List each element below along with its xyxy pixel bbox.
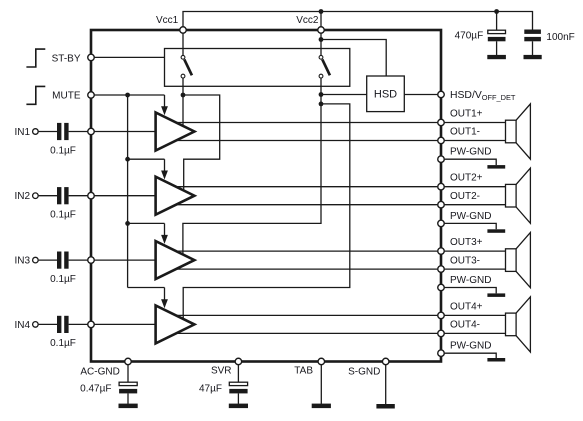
wire OUT3+ to speaker xyxy=(445,250,506,252)
pin OUT4+ xyxy=(438,312,445,319)
pin Vcc1 xyxy=(180,27,187,34)
label Vcc2 xyxy=(296,15,319,26)
svg-text:PW-GND: PW-GND xyxy=(450,275,491,286)
IC block boundary xyxy=(91,30,441,362)
wire mute bus xyxy=(127,95,129,288)
svg-text:IN1: IN1 xyxy=(14,127,30,138)
pin OUT4- xyxy=(438,330,445,337)
wire 47uF to ground xyxy=(237,393,239,404)
wire OUT3- to speaker xyxy=(445,268,506,270)
label IN2 xyxy=(14,191,30,202)
wire cap C1 to pin IN1 xyxy=(69,131,88,133)
label IN4 xyxy=(14,320,30,331)
svg-text:0.47µF: 0.47µF xyxy=(80,384,111,395)
svg-text:IN4: IN4 xyxy=(14,320,30,331)
svg-text:OUT1-: OUT1- xyxy=(450,127,480,138)
wire 100nF to ground xyxy=(532,41,534,55)
node S1 bias junction xyxy=(181,93,186,98)
switch S1 top contact xyxy=(181,55,185,59)
wire OUT1- net xyxy=(175,140,437,142)
pin OUT2+ xyxy=(438,183,445,190)
wire IN3 to amp xyxy=(95,259,156,261)
wire mute feed amp2 xyxy=(128,158,165,160)
label OUT2- xyxy=(450,191,480,202)
wire OUT2+ net xyxy=(175,186,437,188)
wire OUT4- net xyxy=(175,332,437,334)
svg-text:HSD: HSD xyxy=(374,89,397,101)
svg-text:PW-GND: PW-GND xyxy=(450,341,491,352)
pin IN4 xyxy=(88,321,95,328)
wire 470uF feed xyxy=(496,12,498,31)
wire OUT4+ to speaker xyxy=(445,314,506,316)
value 100nF xyxy=(546,32,574,43)
ground PW-GND3 xyxy=(487,293,505,297)
svg-text:MUTE: MUTE xyxy=(52,91,81,102)
ground AC-GND xyxy=(119,404,138,409)
pin PW-GND2 xyxy=(438,220,445,227)
speaker LS2 xyxy=(506,168,531,223)
pin OUT1+ xyxy=(438,119,445,126)
capacitor C1 0.1uF xyxy=(57,123,69,140)
svg-text:OUT3-: OUT3- xyxy=(450,255,480,266)
node 470uF top-rail junction xyxy=(494,9,499,14)
pin IN3 xyxy=(88,257,95,264)
node Vcc2 top-rail junction xyxy=(319,9,324,14)
pin S-GND xyxy=(382,358,389,365)
node S2 bias junction xyxy=(319,102,324,107)
wire cap C2 to pin IN2 xyxy=(69,195,88,197)
label PW-GND1 xyxy=(450,147,491,158)
wire OUT2- net xyxy=(175,204,437,206)
wire MUTE to mute bus xyxy=(95,94,165,96)
wire OUT1+ to speaker xyxy=(445,122,506,124)
label PW-GND3 xyxy=(450,275,491,286)
speaker LS3 xyxy=(506,233,531,288)
value C4 0.1uF xyxy=(50,338,76,349)
pin OUT1- xyxy=(438,137,445,144)
label PW-GND4 xyxy=(450,341,491,352)
ground 470uF xyxy=(487,55,506,59)
svg-text:0.1µF: 0.1µF xyxy=(50,210,76,221)
pin TAB xyxy=(318,358,325,365)
pin SVR xyxy=(235,358,242,365)
ground 100nF xyxy=(524,55,542,59)
pin ST-BY xyxy=(88,54,95,61)
speaker LS4 xyxy=(506,297,531,352)
switch S2 top contact xyxy=(319,55,323,59)
pin PW-GND3 xyxy=(438,284,445,291)
wire S2 to HSD xyxy=(321,94,367,96)
svg-text:PW-GND: PW-GND xyxy=(450,211,491,222)
switch S2 blade xyxy=(322,59,330,75)
wire S2 branch to amp4 bias xyxy=(183,104,350,318)
wire switch S1 to bias node xyxy=(182,78,184,95)
svg-text:IN3: IN3 xyxy=(14,256,30,267)
label OUT2+ xyxy=(450,173,483,184)
svg-text:0.1µF: 0.1µF xyxy=(50,338,76,349)
wire SVR to cap xyxy=(237,365,239,382)
wire HSD to pin xyxy=(404,94,437,96)
node mute bus amp3 tap xyxy=(125,221,130,226)
capacitor 470uF xyxy=(488,30,506,41)
label OUT1+ xyxy=(450,109,483,120)
label OUT4+ xyxy=(450,301,483,312)
switch S1 bottom contact xyxy=(181,74,185,78)
wire IN3 to coupling cap xyxy=(39,259,57,261)
svg-text:OUT2-: OUT2- xyxy=(450,191,480,202)
svg-text:TAB: TAB xyxy=(294,365,313,376)
svg-text:OUT4-: OUT4- xyxy=(450,320,480,331)
op-amp A2 xyxy=(156,177,195,215)
wire S-GND to ground xyxy=(385,365,387,404)
svg-text:Vcc1: Vcc1 xyxy=(156,15,179,26)
wire IN4 to coupling cap xyxy=(39,323,57,325)
wire TAB to ground xyxy=(320,365,322,404)
label IN1 xyxy=(14,127,30,138)
wire Vcc2 branch to HSD top xyxy=(321,40,386,77)
value C3 0.1uF xyxy=(50,274,76,285)
svg-text:IN2: IN2 xyxy=(14,191,30,202)
op-amp A1 xyxy=(156,113,195,151)
value 47uF xyxy=(199,384,222,395)
label ST-BY xyxy=(52,53,81,64)
wire IN2 to amp xyxy=(95,195,156,197)
pin HSD/VOFF_DET xyxy=(438,91,445,98)
wire OUT3+ net xyxy=(175,250,437,252)
node S2 to HSD junction xyxy=(319,92,324,97)
ground PW-GND2 xyxy=(487,229,505,233)
label Vcc1 xyxy=(156,15,179,26)
capacitor C2 0.1uF xyxy=(57,187,69,204)
wire OUT3- net xyxy=(175,268,437,270)
block HSD xyxy=(367,76,405,112)
mute arrow amp4 xyxy=(161,288,168,309)
label S-GND xyxy=(348,366,380,377)
ground S-GND xyxy=(376,404,394,409)
wire Vcc2 riser xyxy=(320,12,322,27)
label TAB xyxy=(294,365,313,376)
wire PW-GND1 to ground xyxy=(445,159,497,165)
capacitor 0.47uF xyxy=(119,382,137,393)
label AC-GND xyxy=(80,366,119,377)
wire cap C4 to pin IN4 xyxy=(69,323,88,325)
svg-text:OUT3+: OUT3+ xyxy=(450,237,483,248)
switch block box xyxy=(165,49,350,87)
terminal IN4 xyxy=(33,322,39,328)
waveform symbol MUTE xyxy=(26,86,45,104)
wire PW-GND3 to ground xyxy=(445,288,497,294)
op-amp A3 xyxy=(156,241,195,279)
wire PW-GND4 to ground xyxy=(445,353,497,358)
node mute bus amp2 tap xyxy=(125,157,130,162)
pin OUT3- xyxy=(438,266,445,273)
svg-text:470µF: 470µF xyxy=(455,31,484,42)
ground TAB xyxy=(312,404,331,409)
label IN3 xyxy=(14,256,30,267)
terminal IN1 xyxy=(33,129,39,135)
svg-text:0.1µF: 0.1µF xyxy=(50,145,76,156)
wire PW-GND2 to ground xyxy=(445,223,497,229)
label OUT4- xyxy=(450,320,480,331)
pin PW-GND4 xyxy=(438,350,445,357)
switch S2 bottom contact xyxy=(319,74,323,78)
wire OUT2- to speaker xyxy=(445,204,506,206)
svg-text:47µF: 47µF xyxy=(199,384,222,395)
label SVR xyxy=(211,365,232,376)
wire mute feed amp3 xyxy=(128,222,165,224)
svg-text:OUT4+: OUT4+ xyxy=(450,301,483,312)
svg-text:AC-GND: AC-GND xyxy=(80,366,119,377)
label MUTE xyxy=(52,91,81,102)
wire top supply rail xyxy=(183,12,533,30)
value 470uF xyxy=(455,31,484,42)
wire OUT1- to speaker xyxy=(445,140,506,142)
capacitor C4 0.1uF xyxy=(57,316,69,333)
svg-text:SVR: SVR xyxy=(211,365,232,376)
value C1 0.1uF xyxy=(50,145,76,156)
pin OUT3+ xyxy=(438,248,445,255)
mute arrow amp3 xyxy=(161,223,168,244)
wire S2 down to amp3 bias xyxy=(183,78,321,254)
pin OUT2- xyxy=(438,201,445,208)
svg-text:ST-BY: ST-BY xyxy=(52,53,81,64)
svg-text:0.1µF: 0.1µF xyxy=(50,274,76,285)
svg-text:PW-GND: PW-GND xyxy=(450,147,491,158)
terminal IN3 xyxy=(33,257,39,263)
svg-text:100nF: 100nF xyxy=(546,32,574,43)
wire bias amp1 drop xyxy=(182,95,184,125)
wire ST-BY to switch block xyxy=(95,56,165,58)
label HSD/VOFF_DET xyxy=(450,90,516,102)
terminal IN2 xyxy=(33,193,39,199)
wire IN1 to coupling cap xyxy=(39,131,57,133)
label OUT3+ xyxy=(450,237,483,248)
pin PW-GND1 xyxy=(438,156,445,163)
wire OUT2+ to speaker xyxy=(445,186,506,188)
wire OUT4- to speaker xyxy=(445,332,506,334)
value C2 0.1uF xyxy=(50,210,76,221)
node Vcc2 HSD branch xyxy=(319,37,324,42)
wire OUT1+ net xyxy=(175,122,437,124)
wire OUT4+ net xyxy=(175,314,437,316)
pin Vcc2 xyxy=(318,27,325,34)
switch S1 blade xyxy=(184,59,192,75)
wire 470uF to ground xyxy=(496,41,498,55)
capacitor 47uF xyxy=(229,382,247,393)
capacitor C3 0.1uF xyxy=(57,252,69,269)
wire IN1 to amp xyxy=(95,131,156,133)
wire Vcc2 to switch S2 xyxy=(320,34,322,56)
mute arrow amp1 xyxy=(161,95,168,115)
capacitor 100nF xyxy=(524,30,541,42)
svg-text:S-GND: S-GND xyxy=(348,366,380,377)
ground SVR xyxy=(229,404,248,409)
ground PW-GND4 xyxy=(487,358,505,362)
wire IN2 to coupling cap xyxy=(39,195,57,197)
wire 0.47uF to ground xyxy=(127,393,129,404)
wire IN4 to amp xyxy=(95,323,156,325)
op-amp A4 xyxy=(156,305,195,343)
wire AC-GND to cap xyxy=(127,365,129,382)
pin MUTE xyxy=(88,92,95,99)
value 0.47uF xyxy=(80,384,111,395)
speaker LS1 xyxy=(506,104,531,159)
svg-text:OUT1+: OUT1+ xyxy=(450,109,483,120)
wire Vcc1 to switch S1 xyxy=(182,34,184,56)
wire bias zigzag to amp2 xyxy=(183,95,220,190)
label OUT1- xyxy=(450,127,480,138)
label OUT3- xyxy=(450,255,480,266)
label PW-GND2 xyxy=(450,211,491,222)
wire cap C3 to pin IN3 xyxy=(69,259,88,261)
node mute bus tap xyxy=(125,93,130,98)
wire mute feed amp4 xyxy=(128,287,165,289)
pin IN2 xyxy=(88,192,95,199)
mute arrow amp2 xyxy=(161,159,168,179)
pin IN1 xyxy=(88,128,95,135)
svg-text:Vcc2: Vcc2 xyxy=(296,15,319,26)
pin AC-GND xyxy=(125,358,132,365)
waveform symbol ST-BY xyxy=(26,49,45,67)
svg-text:OUT2+: OUT2+ xyxy=(450,173,483,184)
ground PW-GND1 xyxy=(487,165,505,169)
